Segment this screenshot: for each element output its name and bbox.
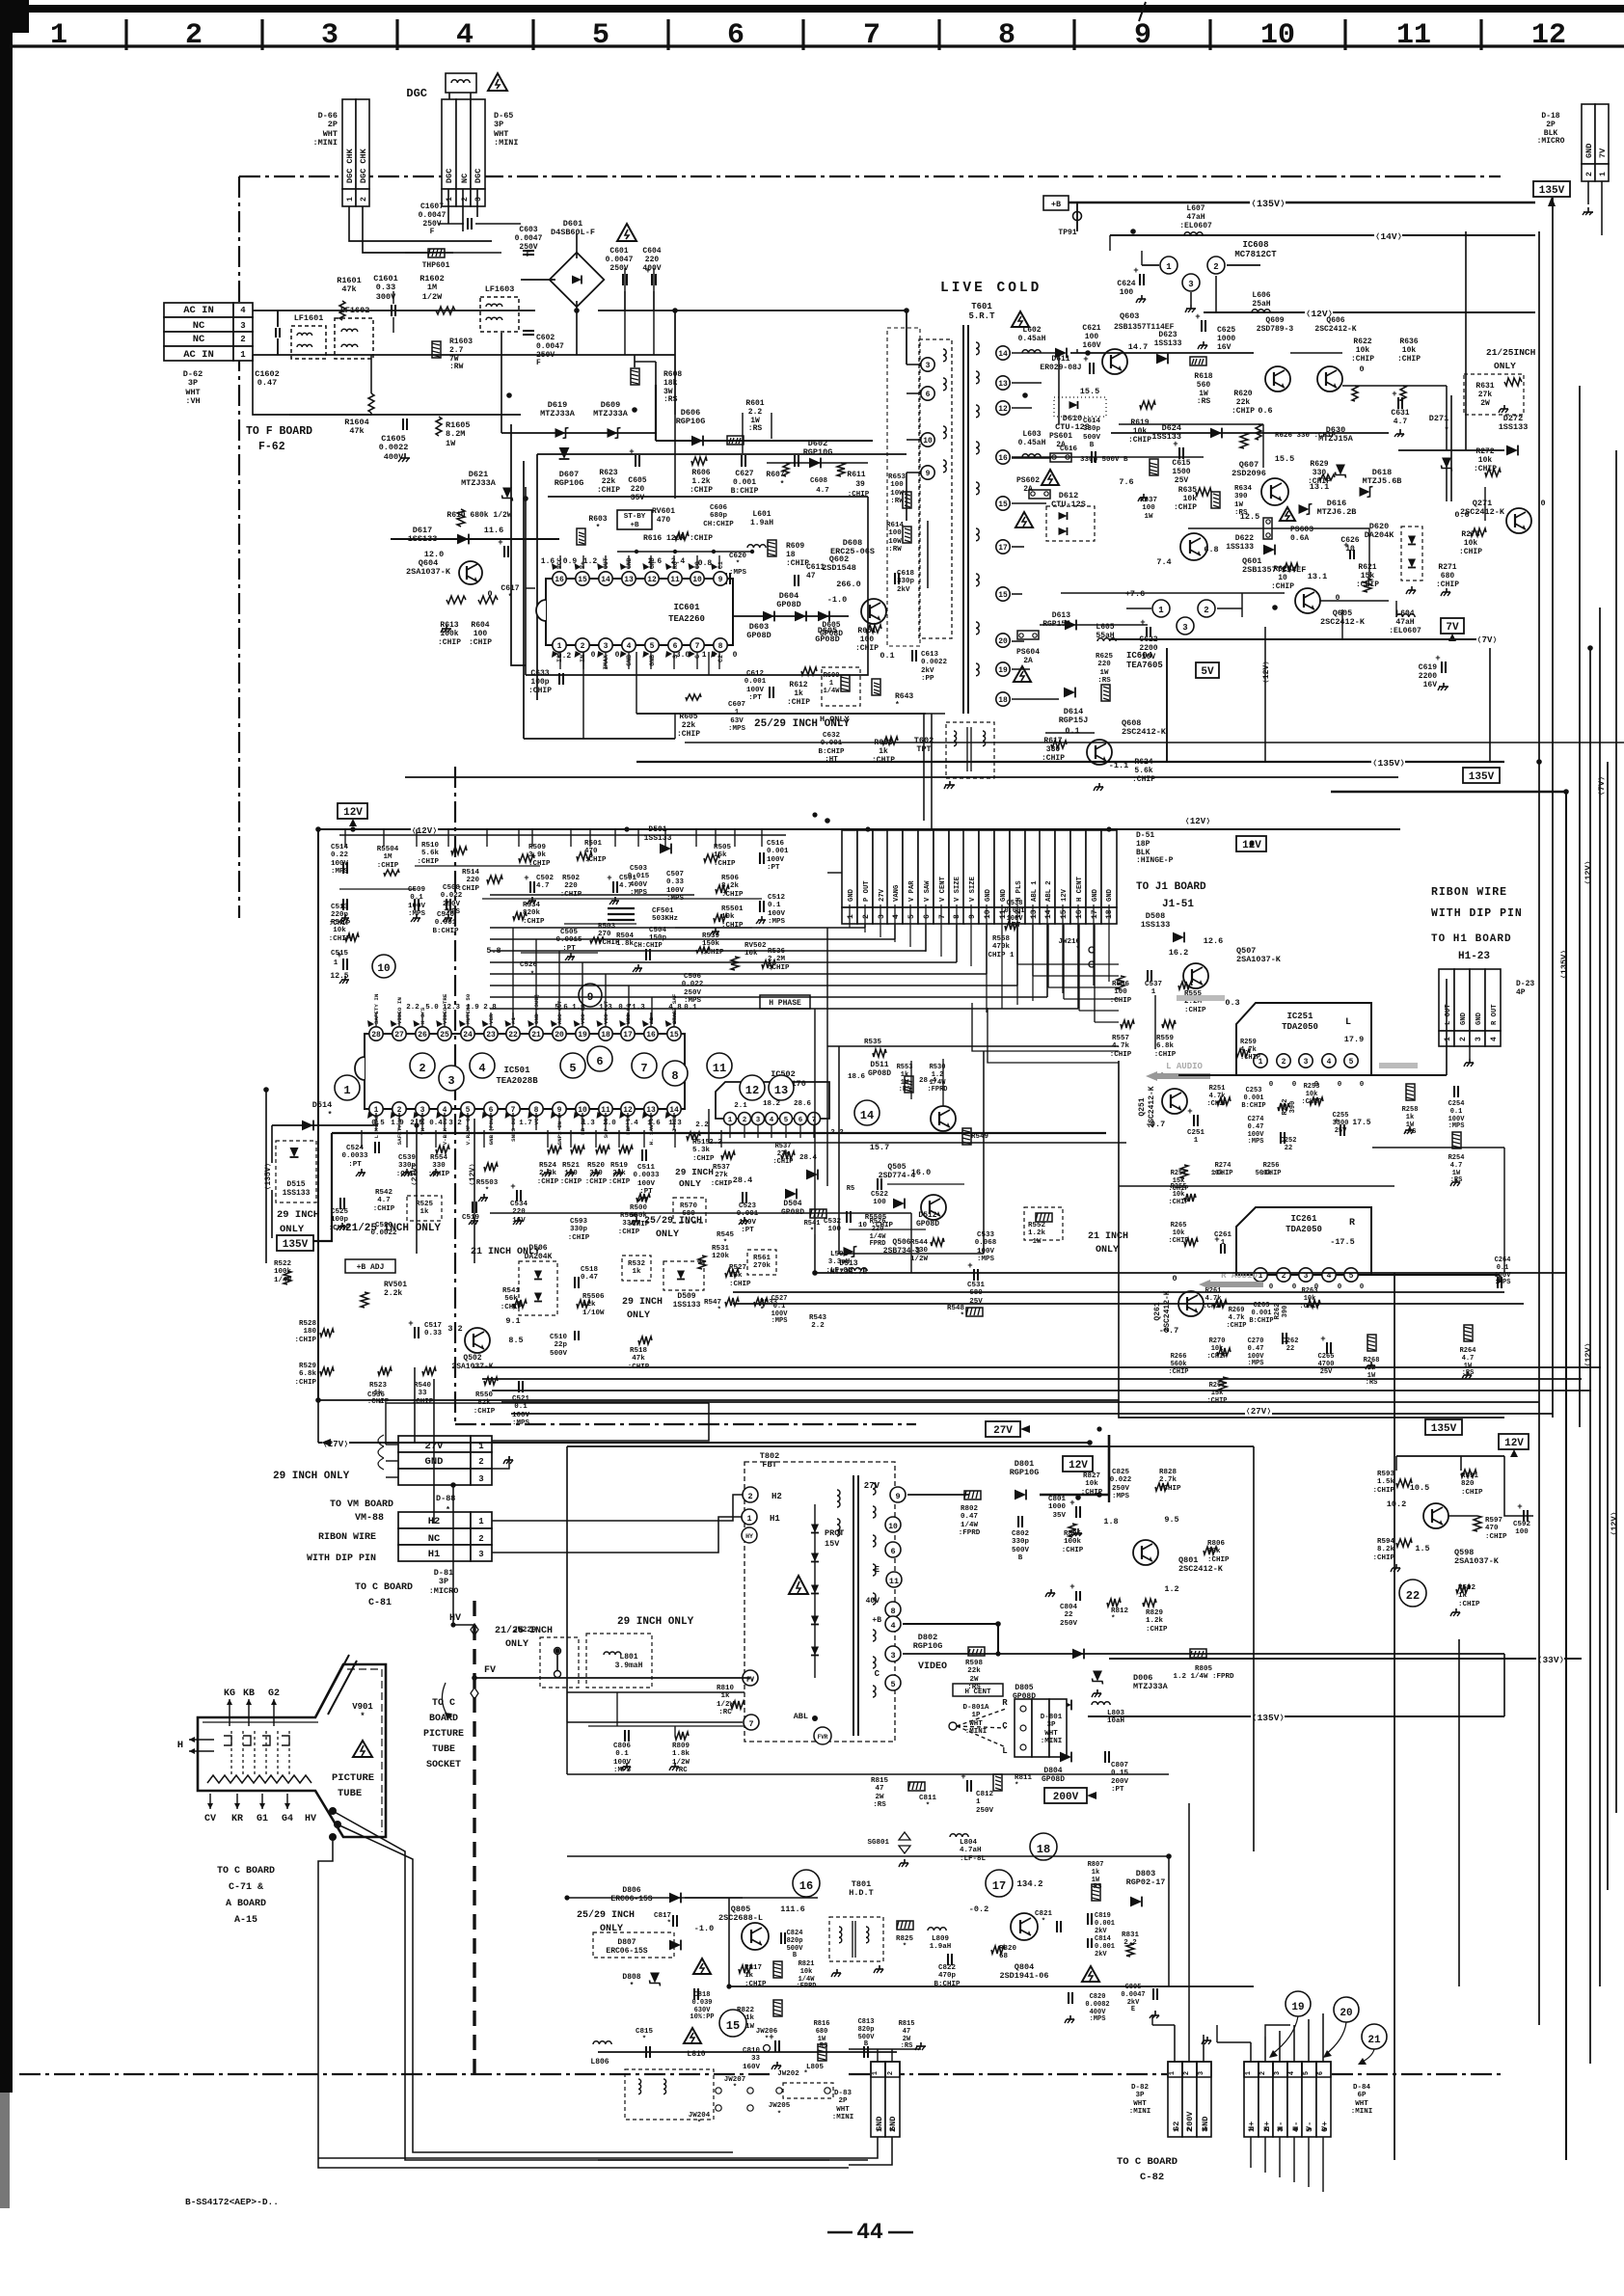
svg-text:10k: 10k (721, 913, 735, 921)
svg-text:1k: 1k (1458, 1592, 1468, 1600)
svg-text:CH:CHIP: CH:CHIP (634, 942, 662, 950)
svg-text:GP08D: GP08D (746, 631, 771, 640)
svg-text:1: 1 (728, 1117, 733, 1124)
svg-text:R270: R270 (1209, 1337, 1226, 1345)
svg-text:4: 4 (478, 1062, 485, 1075)
svg-text:DGC: DGC (474, 169, 483, 183)
svg-text:1.3: 1.3 (582, 1120, 595, 1127)
svg-text:21: 21 (1367, 2035, 1381, 2046)
boxed resistor R802 (964, 1491, 981, 1499)
svg-text:16: 16 (646, 1031, 656, 1040)
svg-text::CHIP: :CHIP (1301, 1098, 1321, 1106)
capacitor C801 (1075, 1506, 1077, 1518)
svg-text::CHIP: :CHIP (1226, 1322, 1246, 1330)
svg-text:1/2W: 1/2W (717, 1701, 735, 1709)
svg-text:+: + (1069, 1582, 1074, 1592)
svg-text:ONLY: ONLY (679, 1178, 701, 1189)
diode D807 dashed (593, 1932, 674, 1958)
svg-text:R252: R252 (1282, 1099, 1289, 1116)
svg-text:C510: C510 (550, 1334, 568, 1341)
test point TP91 (1073, 212, 1082, 221)
svg-text:1.2: 1.2 (1164, 1584, 1178, 1594)
wire HDT drive row (567, 1897, 818, 1899)
resistor R515 (687, 1132, 700, 1140)
svg-text:2.2: 2.2 (830, 1129, 844, 1137)
svg-text:FV: FV (484, 1665, 496, 1676)
svg-text:13: 13 (624, 576, 634, 584)
svg-text::CHIP: :CHIP (1168, 1237, 1188, 1245)
svg-text:R509: R509 (528, 844, 547, 851)
capacitor C261 (1220, 1244, 1222, 1254)
HV connection dots (329, 1807, 337, 1815)
svg-text:0: 0 (591, 651, 596, 660)
svg-text::CHIP: :CHIP (537, 1178, 559, 1186)
svg-text:100V: 100V (768, 910, 786, 918)
svg-text:D271: D271 (1429, 414, 1448, 423)
svg-text:C536: C536 (367, 1391, 386, 1399)
ground symbols under component rows (416, 914, 418, 918)
svg-text:0.8: 0.8 (698, 559, 713, 568)
resistor R594 (1396, 1539, 1412, 1547)
svg-text:R553: R553 (897, 1064, 913, 1071)
svg-text:1.3: 1.3 (632, 1004, 645, 1012)
capacitor C631 (1397, 397, 1399, 409)
27V exit arrows (321, 1439, 331, 1446)
svg-text:15V: 15V (825, 1539, 840, 1549)
resistor R610 (457, 509, 465, 527)
svg-text:❬135V❭: ❬135V❭ (1559, 950, 1569, 980)
svg-text::RS: :RS (1366, 1379, 1378, 1387)
svg-text:JW206: JW206 (756, 2028, 778, 2036)
resistor R534 (513, 912, 527, 920)
diode D606 (691, 436, 703, 446)
svg-text:680: 680 (1441, 572, 1455, 581)
svg-text:150k: 150k (702, 940, 720, 948)
svg-text:100: 100 (1142, 504, 1155, 512)
svg-text:1.8: 1.8 (1103, 1517, 1118, 1526)
svg-text::CHIP: :CHIP (772, 1158, 793, 1166)
svg-text:1: 1 (334, 959, 338, 967)
IC501 body (365, 1034, 685, 1109)
tag 135V right mid (1463, 768, 1500, 783)
resistor R503 (590, 937, 604, 943)
svg-text:0.0047: 0.0047 (515, 234, 543, 243)
capacitor C620 (725, 573, 727, 584)
svg-text:266.0: 266.0 (836, 580, 861, 589)
svg-text:16V: 16V (1423, 681, 1438, 689)
resistor R554 (436, 1146, 449, 1153)
wire 27V from FBT (907, 1494, 969, 1496)
ST-BY +B box (617, 510, 652, 529)
wire T601 primary bottom (906, 473, 907, 521)
svg-text:135V: 135V (1469, 771, 1495, 783)
svg-text::CHIP: :CHIP (1206, 1353, 1227, 1361)
svg-text:MTZJ6.2B: MTZJ6.2B (1317, 507, 1357, 517)
svg-text:4.7: 4.7 (1394, 418, 1408, 426)
resistor R1603 (432, 341, 441, 358)
resistor R609 (768, 540, 776, 556)
resistor R558 (1005, 922, 1018, 930)
resistor R625 (1101, 685, 1110, 701)
svg-text:R526: R526 (870, 1218, 886, 1226)
capacitor C820 (1068, 1992, 1069, 2004)
svg-text:C825: C825 (1112, 1469, 1130, 1476)
svg-text:2SC2412-K: 2SC2412-K (1314, 325, 1356, 334)
connector D-23 (1439, 969, 1454, 1031)
IC604 regulator (1152, 600, 1170, 617)
svg-text::MINI: :MINI (1351, 2108, 1373, 2116)
svg-text::CHIP: :CHIP (692, 1155, 715, 1163)
circled 15 (719, 2010, 746, 2037)
ruler tick (1072, 19, 1075, 50)
svg-text:C632: C632 (823, 732, 841, 740)
svg-text:1.9aH: 1.9aH (750, 519, 773, 527)
svg-text:D-83: D-83 (834, 2090, 853, 2097)
svg-text:2: 2 (862, 914, 871, 919)
svg-text:400V: 400V (642, 264, 661, 273)
svg-text:+: + (769, 2033, 773, 2042)
resistor R826 (1069, 1524, 1076, 1537)
svg-text::PT: :PT (741, 1227, 754, 1234)
inductor L602 (1022, 350, 1041, 353)
IC601 body (546, 579, 733, 645)
svg-text:E: E (875, 1565, 880, 1575)
svg-text:19: 19 (578, 1031, 587, 1040)
svg-text:R524: R524 (539, 1162, 557, 1170)
resistor R820 (991, 1946, 1005, 1954)
warning + L810 (684, 2028, 701, 2043)
svg-text:IC261: IC261 (1290, 1214, 1317, 1224)
svg-text:❬14V❭: ❬14V❭ (1375, 231, 1403, 242)
boundary chain line mid-left (454, 767, 456, 1424)
svg-text::MPS: :MPS (512, 1419, 530, 1427)
diode D609 (608, 428, 621, 439)
svg-text:SOCKET: SOCKET (426, 1760, 461, 1770)
secondary left column resistors (903, 492, 911, 508)
svg-text:H CENT: H CENT (1076, 876, 1084, 902)
svg-text:120k: 120k (712, 1253, 730, 1260)
resistor R1605 (436, 417, 442, 436)
svg-text:*: * (1042, 1918, 1046, 1926)
resistor R520 (596, 1146, 609, 1153)
svg-text:1k: 1k (720, 1692, 730, 1700)
svg-text:R255: R255 (1171, 1183, 1187, 1191)
svg-text:B:CHIP: B:CHIP (1249, 1317, 1273, 1325)
capacitor C804 (1075, 1591, 1077, 1601)
svg-text::MPS: :MPS (728, 725, 746, 733)
svg-text:18.6: 18.6 (848, 1073, 866, 1081)
svg-text:-17.5: -17.5 (1330, 1237, 1355, 1247)
svg-text:4.7k: 4.7k (1205, 1295, 1222, 1303)
svg-text:ABL 1: ABL 1 (1031, 880, 1039, 902)
resistor R807 (1092, 1884, 1100, 1901)
svg-text:*: * (378, 1401, 383, 1409)
svg-text:R557: R557 (1112, 1035, 1129, 1042)
svg-text:1SS133: 1SS133 (1141, 920, 1171, 930)
svg-text:0.0022: 0.0022 (379, 443, 409, 452)
svg-text:7: 7 (748, 1719, 753, 1729)
svg-text:ABL: ABL (794, 1712, 808, 1721)
svg-text:B:CHIP: B:CHIP (731, 487, 759, 496)
svg-text:2P: 2P (328, 120, 338, 129)
svg-text:R528: R528 (299, 1320, 317, 1328)
svg-text:0.0022: 0.0022 (921, 659, 948, 666)
small terminals (716, 2088, 721, 2093)
svg-text:39: 39 (855, 480, 865, 489)
svg-text:L607: L607 (1186, 204, 1204, 213)
resistor R514 (487, 876, 502, 883)
svg-text:250V: 250V (976, 1807, 994, 1815)
svg-text:2: 2 (1263, 2127, 1272, 2132)
svg-text:7: 7 (695, 642, 700, 651)
svg-text:ABL 2: ABL 2 (1045, 880, 1053, 902)
resistor R651 (866, 625, 881, 633)
capacitor C805 (1152, 1988, 1154, 2000)
svg-text:NC: NC (428, 1533, 441, 1545)
capacitor C592 (1523, 1510, 1525, 1522)
resistor R529 (320, 1367, 334, 1375)
svg-text:C612: C612 (746, 670, 765, 678)
T802 secondary winding (873, 1483, 876, 1495)
capacitor C532 (846, 1211, 848, 1223)
diode D514 (302, 1121, 313, 1131)
svg-text:D806: D806 (622, 1886, 640, 1895)
svg-text:1k: 1k (744, 1972, 754, 1980)
T802 pins left (743, 1487, 758, 1502)
svg-text:C617: C617 (501, 584, 519, 593)
svg-text:*: * (777, 2111, 782, 2119)
svg-text::CHIP: :CHIP (1474, 465, 1497, 473)
T802 primary winding (837, 1490, 840, 1507)
svg-text:47k: 47k (341, 284, 356, 294)
svg-text:LF1602: LF1602 (340, 306, 370, 315)
circled 21 (1362, 2024, 1387, 2049)
svg-text:4.7: 4.7 (536, 882, 550, 890)
warning (1082, 1966, 1099, 1982)
svg-text:*: * (666, 1920, 671, 1928)
svg-text:❬135V❭: ❬135V❭ (1251, 200, 1286, 210)
svg-text:0.47: 0.47 (1248, 1345, 1264, 1353)
svg-text:JW204: JW204 (689, 2112, 711, 2120)
svg-text:1.8k: 1.8k (616, 940, 635, 948)
svg-text:+: + (1083, 355, 1088, 365)
svg-text:PROT: PROT (825, 1528, 844, 1538)
svg-text:C814: C814 (1095, 1935, 1111, 1943)
svg-text:R541: R541 (804, 1220, 821, 1228)
resistor R268 (1367, 1335, 1376, 1351)
svg-text:10W: 10W (890, 490, 904, 498)
svg-text:R810: R810 (717, 1685, 735, 1692)
capacitor C617 (503, 546, 505, 557)
svg-text::PT: :PT (767, 864, 780, 872)
svg-text:15: 15 (998, 500, 1008, 509)
svg-text:P OUT: P OUT (863, 880, 871, 902)
svg-text:*: * (895, 701, 900, 710)
svg-text:47aH: 47aH (1186, 213, 1204, 222)
svg-text:+: + (524, 874, 528, 883)
svg-text:20: 20 (1340, 2008, 1352, 2019)
svg-text:22k: 22k (682, 721, 696, 730)
svg-text:10k: 10k (1304, 1295, 1316, 1303)
svg-text:4: 4 (1490, 1037, 1499, 1041)
svg-text:1: 1 (557, 642, 562, 651)
svg-text:R547: R547 (704, 1299, 721, 1307)
svg-text:2.1: 2.1 (734, 1102, 747, 1110)
svg-text:100V: 100V (637, 1180, 656, 1188)
svg-text:C622: C622 (1139, 635, 1157, 644)
svg-text:C593: C593 (570, 1218, 588, 1226)
svg-text::CHIP: :CHIP (568, 1234, 590, 1242)
svg-text:ST-BY: ST-BY (624, 513, 646, 521)
svg-text:L810: L810 (687, 2050, 705, 2059)
T802 core (853, 1475, 854, 1736)
svg-text:Q261: Q261 (1153, 1302, 1162, 1320)
svg-text:2: 2 (743, 1117, 747, 1124)
secondary vertical rails (1058, 353, 1060, 424)
ruler tick (937, 19, 940, 50)
svg-text:1: 1 (1444, 1037, 1452, 1041)
capacitor C1605 (402, 419, 404, 430)
svg-text:820: 820 (1461, 1480, 1475, 1488)
svg-text:C822: C822 (938, 1964, 957, 1972)
svg-text:12V: 12V (1069, 1460, 1088, 1472)
circled 9 (579, 984, 602, 1007)
svg-text:R517: R517 (331, 919, 348, 927)
svg-text:GND: GND (1475, 1012, 1483, 1025)
FBT left rails (567, 1691, 744, 1693)
svg-text:GP08D: GP08D (1042, 1775, 1065, 1784)
svg-text:R629: R629 (1310, 460, 1328, 469)
svg-text:2.2: 2.2 (406, 1004, 420, 1012)
svg-text:C507: C507 (666, 871, 684, 878)
ruler tick (666, 19, 669, 50)
svg-text:200V: 200V (1111, 1778, 1129, 1786)
svg-text:1: 1 (446, 197, 454, 202)
svg-text:10k: 10k (1183, 495, 1198, 503)
svg-text:+B: +B (630, 522, 639, 529)
svg-text:IC251: IC251 (1286, 1012, 1313, 1021)
IC501 pin stubs (375, 1013, 377, 1026)
svg-text:H: H (177, 1740, 183, 1751)
svg-text:2: 2 (419, 1062, 425, 1075)
Q598 wires (1396, 1455, 1504, 1457)
svg-text:H2: H2 (771, 1492, 782, 1501)
svg-text:5: 5 (784, 1117, 789, 1124)
svg-text:3: 3 (240, 321, 245, 331)
svg-text:4.7: 4.7 (816, 487, 829, 495)
diode D509 dashed (663, 1261, 704, 1290)
svg-text:3: 3 (321, 19, 338, 52)
svg-text:C270: C270 (1248, 1337, 1264, 1345)
svg-text:3: 3 (890, 1651, 895, 1661)
svg-text:2: 2 (889, 2127, 898, 2132)
svg-text:JW207: JW207 (724, 2076, 746, 2084)
svg-text:15.5: 15.5 (1275, 454, 1294, 464)
svg-text:R501: R501 (584, 840, 603, 848)
svg-text:R267: R267 (1209, 1382, 1226, 1390)
svg-text::PT: :PT (1009, 922, 1021, 930)
svg-text::MINI: :MINI (832, 2114, 854, 2121)
svg-text::MINI: :MINI (1041, 1738, 1063, 1745)
svg-text:220: 220 (466, 877, 479, 884)
svg-text::CHIP: :CHIP (714, 860, 736, 868)
svg-text:C815: C815 (636, 2028, 654, 2036)
boundary chain line top (239, 176, 1501, 177)
svg-text:220: 220 (631, 485, 645, 494)
svg-text:3300: 3300 (1333, 1120, 1349, 1127)
capacitor C819 (1087, 1913, 1089, 1925)
pot RV502 (731, 957, 739, 970)
svg-text:4: 4 (1327, 1058, 1332, 1067)
svg-text:V SIZE: V SIZE (969, 876, 977, 902)
svg-text:100: 100 (860, 635, 875, 644)
svg-text:0.001: 0.001 (1095, 1943, 1115, 1951)
svg-text:0.6: 0.6 (1258, 406, 1272, 416)
svg-text:1.8k: 1.8k (672, 1750, 690, 1758)
resistor R528 (320, 1329, 334, 1337)
svg-text:8: 8 (718, 642, 723, 651)
svg-text:GND: GND (848, 888, 855, 902)
svg-text::CHIP: :CHIP (677, 730, 700, 739)
svg-text:16V: 16V (1142, 653, 1156, 662)
svg-text::CHIP: :CHIP (768, 964, 790, 972)
svg-text:C-82: C-82 (1140, 2172, 1164, 2183)
svg-text:2.2: 2.2 (695, 1121, 709, 1129)
svg-text:4.7k: 4.7k (1229, 1314, 1245, 1322)
svg-text:R601: R601 (745, 399, 764, 408)
svg-text:1/4W: 1/4W (961, 1522, 979, 1529)
svg-text:2: 2 (1213, 262, 1218, 272)
svg-text:18: 18 (786, 551, 796, 559)
fuse PS604 (1017, 631, 1039, 639)
svg-text:TO VM BOARD: TO VM BOARD (330, 1499, 393, 1510)
svg-text:1: 1 (1169, 2071, 1177, 2075)
svg-text:G4: G4 (282, 1814, 293, 1824)
svg-text:12V: 12V (1061, 888, 1069, 902)
svg-text:R643: R643 (895, 692, 913, 701)
svg-text:+: + (967, 1261, 972, 1271)
svg-text:NC: NC (460, 174, 470, 183)
svg-text:TO F BOARD: TO F BOARD (246, 425, 312, 438)
svg-text:18P: 18P (1136, 840, 1150, 849)
resistor R501 (577, 852, 592, 860)
svg-text:330: 330 (1046, 745, 1061, 754)
svg-text::RS: :RS (1234, 509, 1248, 517)
boundary chain line left (238, 176, 240, 918)
svg-text::RS: :RS (1197, 397, 1211, 406)
svg-text:2200: 2200 (1139, 644, 1157, 653)
svg-text:R545: R545 (717, 1231, 735, 1239)
svg-text:R635: R635 (1178, 486, 1197, 495)
svg-text:-0.7: -0.7 (1146, 1120, 1165, 1129)
IC601 pins bottom row (553, 638, 566, 652)
svg-text:10k: 10k (1133, 427, 1148, 436)
svg-text:❬27V❭: ❬27V❭ (411, 1163, 420, 1186)
svg-text:B:CHIP: B:CHIP (432, 928, 459, 935)
svg-text:R510: R510 (421, 842, 440, 850)
svg-text:250V: 250V (1112, 1485, 1130, 1493)
svg-text:4P: 4P (1516, 988, 1526, 997)
svg-text:ONLY: ONLY (505, 1639, 528, 1650)
svg-text:F-62: F-62 (258, 441, 285, 453)
svg-text:25/29 INCH: 25/29 INCH (644, 1215, 702, 1227)
svg-text:9: 9 (895, 1492, 900, 1501)
svg-text:100V: 100V (767, 856, 785, 864)
svg-text:TUBE: TUBE (432, 1744, 455, 1755)
resistor R518 (638, 1337, 652, 1344)
svg-text::RS: :RS (816, 2042, 828, 2050)
svg-text:10: 10 (692, 576, 702, 584)
